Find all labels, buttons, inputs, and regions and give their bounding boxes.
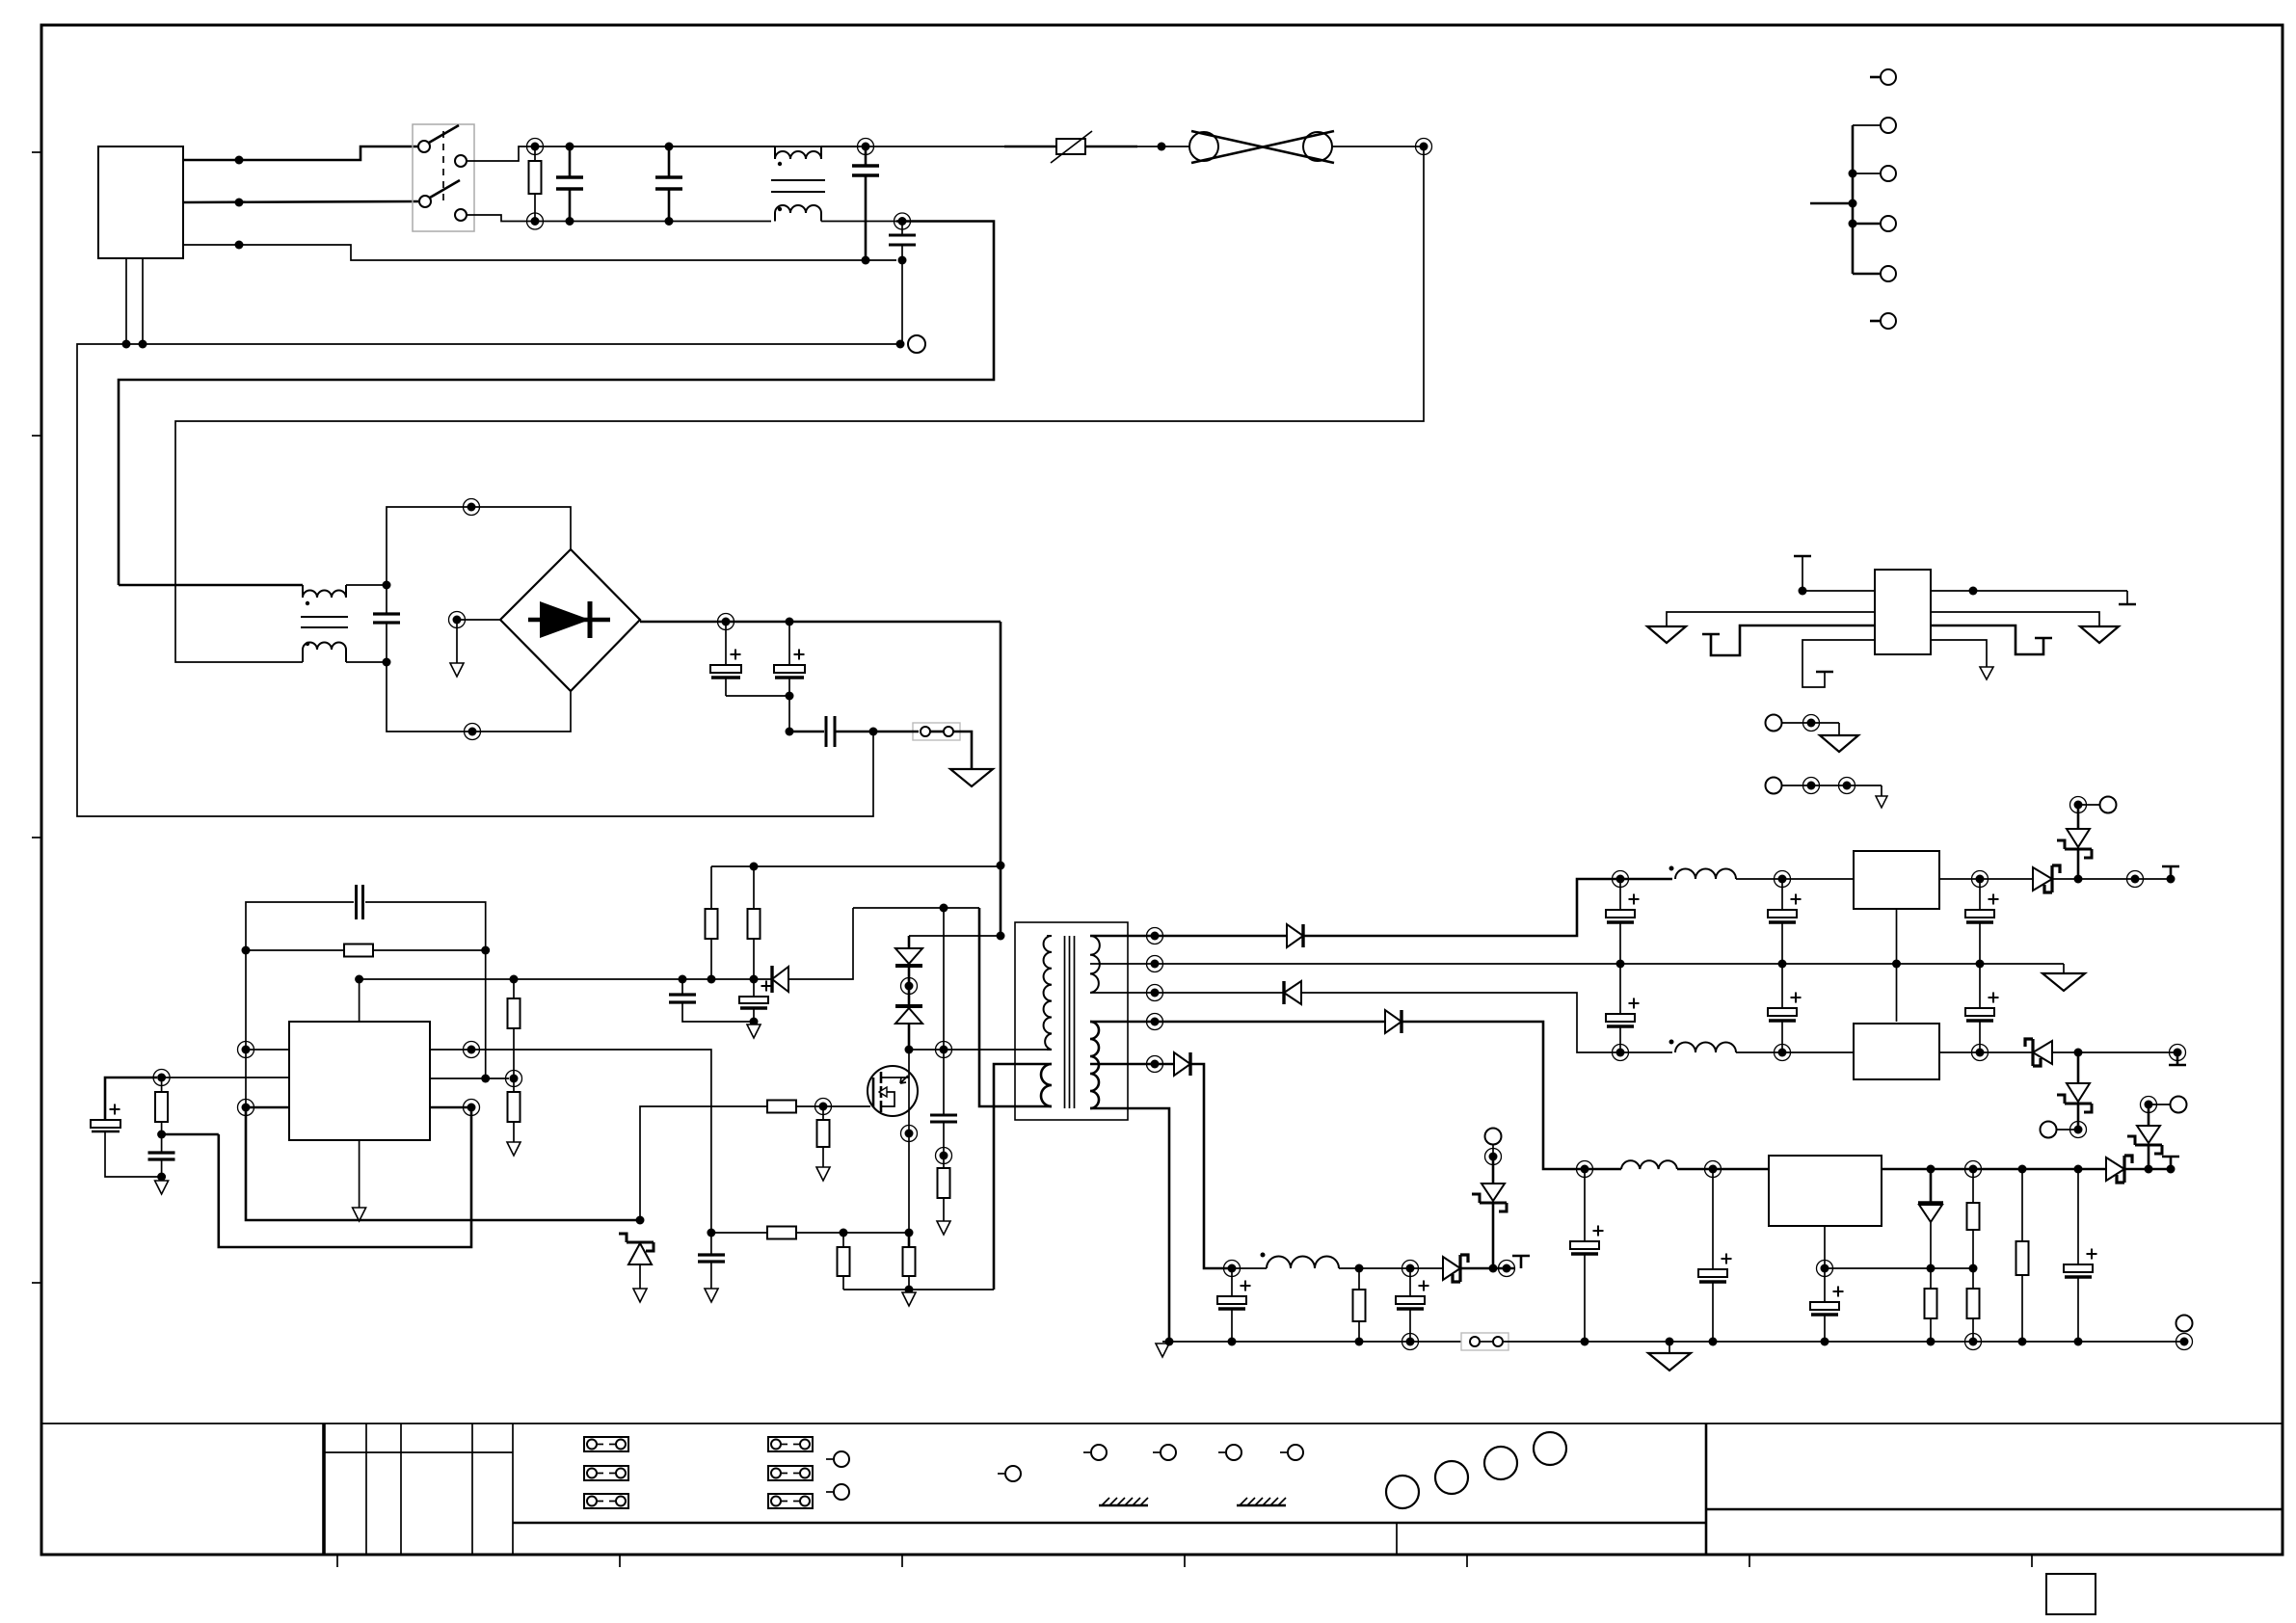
TVS D11 (908, 936, 911, 948)
zener Z3 (2077, 1052, 2080, 1083)
U5 pin R2 to chassis (1931, 612, 2099, 626)
border tick bottom x1522 (1466, 1555, 1468, 1567)
wire choke top out (346, 584, 387, 586)
regulator U4 (1769, 1156, 1882, 1226)
legend testpoint 2 (826, 1491, 833, 1493)
transistor Q1 mosfet (868, 1066, 918, 1116)
primary winding (1044, 936, 1052, 1050)
zener Z5 (1492, 1203, 1495, 1268)
capacitor C6 vcc electrolytic (753, 979, 755, 997)
junction ring N rail (531, 217, 540, 226)
pin3 left (242, 1104, 251, 1112)
legend testpoint 5 (1153, 1451, 1160, 1453)
secondary lead row4 (1090, 1021, 1385, 1024)
S7 secondary (1156, 797, 2193, 1371)
legend testpoint 4 (1083, 1451, 1090, 1453)
choke L1 core (771, 179, 825, 181)
legend jumper b1 (768, 1437, 813, 1451)
legend testpoint 7 (1280, 1451, 1287, 1453)
net arrow under bridge left (456, 620, 458, 663)
capacitor C1 electrolytic (725, 622, 727, 665)
feedback top loop wire (246, 902, 354, 950)
jumper J2 (913, 723, 960, 740)
node DC- (786, 728, 794, 736)
title box right (1705, 1423, 1708, 1555)
chassis ground (950, 769, 993, 786)
resistor R2 startup (753, 866, 755, 909)
U5 pin L3 thick (1702, 633, 1720, 636)
snubber cap C8 (943, 1050, 945, 1115)
legend testpoint 3 (998, 1473, 1004, 1475)
junction ring (1420, 143, 1428, 151)
S5 mosfet (853, 904, 1047, 1236)
IC top pin (359, 979, 360, 1022)
zener Z1 (619, 1234, 654, 1251)
choke L2 core (301, 616, 348, 618)
wire +V1 jog (1303, 879, 1672, 936)
inductor L7 (1621, 1160, 1677, 1169)
legend testpoint 6 (1218, 1451, 1225, 1453)
resistor R7 gate pulldown (822, 1106, 824, 1120)
wire line B earth bus (77, 344, 900, 816)
junction (235, 156, 244, 165)
net arrow sense gnd (908, 1290, 910, 1292)
resistor R18 (513, 979, 515, 998)
legend earth hatched 2 (1237, 1498, 1286, 1505)
resistor R8 sense (767, 1227, 796, 1239)
legend circle 3 (1484, 1447, 1517, 1479)
capacitor C18 (1781, 964, 1783, 1008)
legend jumper b2 (768, 1466, 813, 1480)
pin3 right thick loop (467, 1104, 476, 1112)
secondary lead mid tap (1090, 963, 2064, 965)
legend jumper a2 (584, 1466, 628, 1480)
U5 pin L1 terminal (1794, 555, 1811, 558)
wire L rail mid (570, 146, 775, 147)
bridge rectifier B1 (500, 549, 640, 691)
IC U1 pwm controller (289, 1022, 430, 1140)
junction ring C1 (722, 618, 731, 626)
legend jumper a1 (584, 1437, 628, 1451)
resistor R5 bias (157, 1074, 166, 1082)
resistor R9 shunt a (842, 1233, 844, 1247)
bias cap battery B1 (91, 1120, 120, 1128)
terminal T third (1520, 1256, 1523, 1268)
zener Z4 (2148, 1145, 2150, 1169)
choke L1 bottom winding (775, 205, 821, 222)
resistor R3 feedback (242, 946, 251, 955)
net arrow bias gnd (161, 1177, 163, 1181)
U5 pin L4 terminal (1802, 640, 1875, 687)
pin1 right long wire (467, 1046, 476, 1054)
terminal T +5V (2167, 1165, 2176, 1174)
secondary winding lower (1090, 1022, 1099, 1108)
capacitor C5 vcc (681, 979, 683, 995)
mid rail earth (2063, 964, 2065, 973)
capacitor C2 electrolytic (788, 622, 790, 665)
connector J4 output (1881, 69, 1896, 85)
snubber top wire (909, 935, 1001, 937)
diode D5 schottky (2033, 867, 2052, 891)
junction ring Ycap1 top (862, 143, 870, 151)
wire L down and back to left (175, 146, 1424, 662)
aux bottom lead (979, 908, 1052, 1106)
terminal T +V1 (2167, 875, 2176, 884)
capacitor C23 (2077, 1169, 2079, 1264)
resistor R15 (1972, 1268, 1974, 1289)
resistor R10 shunt b (908, 1233, 911, 1247)
legend band divider (513, 1522, 1706, 1525)
resistor R1 startup (710, 866, 712, 909)
transformer T1 box (1015, 922, 1128, 1120)
aux top lead (994, 1064, 1052, 1290)
diode D8 schottky (2106, 1157, 2124, 1181)
wire comp net down (245, 950, 247, 1107)
capacitor C16 (1979, 879, 1981, 910)
S9 titleblock (41, 1423, 2283, 1614)
switch S1 pole1 (418, 141, 430, 152)
wire third rail jog (1190, 1064, 1228, 1268)
source wire (908, 1114, 910, 1233)
legend jumper b3 (768, 1494, 813, 1508)
border tick bottom x2108 (2031, 1555, 2033, 1567)
resistor R16 (2021, 1169, 2023, 1241)
shunt bottom join (843, 1289, 994, 1290)
wire N rail (529, 221, 771, 223)
capacitor C22 (1824, 1268, 1826, 1302)
secondary lead row5 tap (1090, 1063, 1174, 1066)
capacitor C24 (1231, 1268, 1233, 1296)
inductor L8 (1267, 1257, 1339, 1269)
junction (235, 241, 244, 250)
IC U5 supervisor (1875, 570, 1931, 654)
chassis ground rail (1669, 1342, 1670, 1353)
capacitor CY2 (901, 222, 903, 236)
secondary winding upper (1090, 936, 1100, 993)
terminal circle earth (908, 335, 925, 353)
switch S1 box (413, 124, 474, 231)
node earth to line B (896, 340, 905, 349)
wire E from inlet (183, 245, 896, 260)
fuse F1 thermistor (1004, 146, 1056, 148)
terminal T -V (2176, 1052, 2179, 1065)
U5 pin R4 arrow (1931, 640, 1987, 667)
capacitor C4 bias (148, 1151, 175, 1154)
snubber vertical (943, 908, 945, 1050)
test point row A (1766, 715, 1782, 732)
wire N from inlet (183, 201, 418, 202)
border tick bottom x1229 (1184, 1555, 1186, 1567)
diode D7 schottky (1443, 1257, 1460, 1280)
diode D2 (1282, 981, 1285, 1004)
thermal cutout TF1 (1189, 132, 1218, 161)
resistor R14 (1972, 1169, 1974, 1203)
wire N rail after choke (821, 221, 896, 223)
wire DC+ down (1000, 622, 1002, 936)
legend circle 4 (1534, 1432, 1566, 1465)
border tick bottom x936 (901, 1555, 903, 1567)
wire after switch L (467, 146, 860, 161)
resistor R6 gate (767, 1101, 796, 1113)
switch S1 pole2 (419, 196, 431, 207)
junction ring L rail (531, 143, 540, 151)
bridge diode symbol (528, 618, 610, 623)
junction ring (468, 728, 477, 736)
wire -V jog (1301, 993, 1672, 1052)
wire cap bottoms join (726, 695, 789, 697)
transformer core (1064, 936, 1066, 1108)
border tick bottom x350 (336, 1555, 338, 1567)
stamp box (2046, 1574, 2096, 1614)
resistor R bleeder (534, 146, 536, 161)
test point row B (1766, 778, 1782, 794)
pin1 left (242, 1046, 251, 1054)
diode D4 (1174, 1052, 1190, 1076)
U5 pin L2 to chassis (1667, 612, 1875, 626)
legend jumper a3 (584, 1494, 628, 1508)
IC bottom pin arrow (359, 1140, 360, 1208)
wire bridge left to arrow (457, 619, 500, 621)
U4 adj pin (1824, 1226, 1826, 1268)
junction ring Ycap2 top (898, 217, 907, 226)
choke L1 top winding (775, 146, 821, 159)
regulator U2 (1854, 851, 1939, 909)
switch link dashed (442, 131, 444, 200)
U2 U3 center pin (1896, 909, 1898, 1022)
choke L2 top winding (303, 585, 346, 598)
snubber resistor R11 (938, 1168, 950, 1198)
diode D6 schottky (2025, 1039, 2041, 1066)
wire bias node to loop (162, 1133, 219, 1136)
junction (235, 199, 244, 207)
capacitor C17 (1619, 964, 1621, 1014)
capacitor C14 (1619, 879, 1621, 910)
revision table left (322, 1423, 326, 1555)
capacitor C19 (1979, 964, 1981, 1008)
pin2 right (430, 1078, 509, 1079)
wire +5V jog (1402, 1022, 1581, 1169)
S3 bridge (119, 499, 1005, 980)
secondary ground rail (1162, 1341, 1461, 1343)
S2 primary-top (77, 124, 1432, 816)
secondary lead row1 (1090, 935, 1287, 938)
drain node (905, 1046, 914, 1054)
capacitor C25 (1409, 1268, 1411, 1296)
capacitor C21 (1712, 1169, 1714, 1269)
capacitor CY3 film (825, 716, 828, 747)
resistor R4 (513, 1078, 515, 1092)
capacitor C20 (1584, 1169, 1586, 1241)
thick comp loop lower (246, 1107, 640, 1220)
legend testpoint 1 (826, 1458, 833, 1460)
legend circle 1 (1386, 1476, 1419, 1508)
wire L rail after choke (821, 146, 1056, 147)
capacitor C7 sense (710, 1233, 712, 1255)
border tick left y869 (32, 837, 41, 838)
wire neutral rail to line A (119, 222, 994, 586)
capacitor C3 feedback (355, 885, 358, 919)
wire neutral to choke (119, 584, 303, 587)
sense row (707, 1229, 715, 1237)
legend circle 2 (1435, 1461, 1468, 1494)
wire after switch N (467, 215, 529, 222)
pin2 left wire (162, 1077, 289, 1078)
wire DC- row (789, 731, 824, 733)
wire AC1 riser (387, 507, 571, 614)
U5 pin R3 thick (1931, 625, 2043, 654)
gate net riser (640, 1106, 767, 1220)
wire AC2 drop (387, 662, 571, 732)
diode D9 (1930, 1169, 1933, 1203)
diode D1 (1287, 924, 1303, 947)
border tick left y452 (32, 435, 41, 437)
wire DC+ rail (640, 621, 1001, 624)
capacitor C15 (1781, 879, 1783, 910)
diode D10 vcc (770, 966, 773, 993)
junction (1158, 143, 1166, 151)
wire startup row (711, 865, 1001, 867)
diode D12 (895, 1004, 922, 1008)
regulator U3 (1854, 1024, 1939, 1079)
resistor R17 (1358, 1268, 1360, 1290)
wire to right corner (1332, 146, 1424, 147)
S6 transformer (979, 908, 2064, 1342)
zener Z2 (2077, 849, 2080, 879)
inductor L6 (1675, 1043, 1736, 1053)
capacitor CX1 (569, 146, 572, 177)
border tick bottom x643 (619, 1555, 621, 1567)
border tick bottom x1815 (1749, 1555, 1750, 1567)
inductor L5 (1675, 869, 1736, 879)
diode D3 (1385, 1010, 1402, 1033)
aux winding (1041, 1064, 1052, 1106)
wire L from inlet (183, 146, 418, 160)
wire choke bottom out (346, 661, 387, 663)
U5 pin R1 (1931, 590, 2127, 592)
jumper J3 (1461, 1333, 1508, 1350)
Vcc row wire (360, 978, 771, 980)
connector bus (1852, 125, 1855, 274)
junction C2 (786, 618, 794, 626)
S8 u5 (1647, 69, 2136, 808)
connector J1 AC inlet (98, 146, 183, 258)
capacitor CX3 (373, 612, 400, 615)
rail end terminal (2180, 1338, 2189, 1346)
resistor R13 (1930, 1268, 1932, 1289)
choke L2 bottom winding (303, 643, 346, 663)
capacitor CX2 (668, 146, 671, 177)
title band top line (41, 1423, 2283, 1424)
secondary lead bottom (1090, 1108, 1169, 1342)
wire inlet bottom legs (125, 258, 127, 344)
wire to chassis (953, 732, 972, 769)
border tick left y1331 (32, 1282, 41, 1284)
net arrow vcc return (753, 1022, 755, 1024)
secondary lead row3 (1090, 992, 1284, 994)
S4 pwm (91, 885, 994, 1306)
legend earth hatched 1 (1099, 1498, 1148, 1505)
junction ring (467, 503, 476, 512)
aux rail wire (853, 907, 979, 909)
capacitor CY1 (865, 146, 868, 166)
border tick left y158 (32, 151, 41, 153)
